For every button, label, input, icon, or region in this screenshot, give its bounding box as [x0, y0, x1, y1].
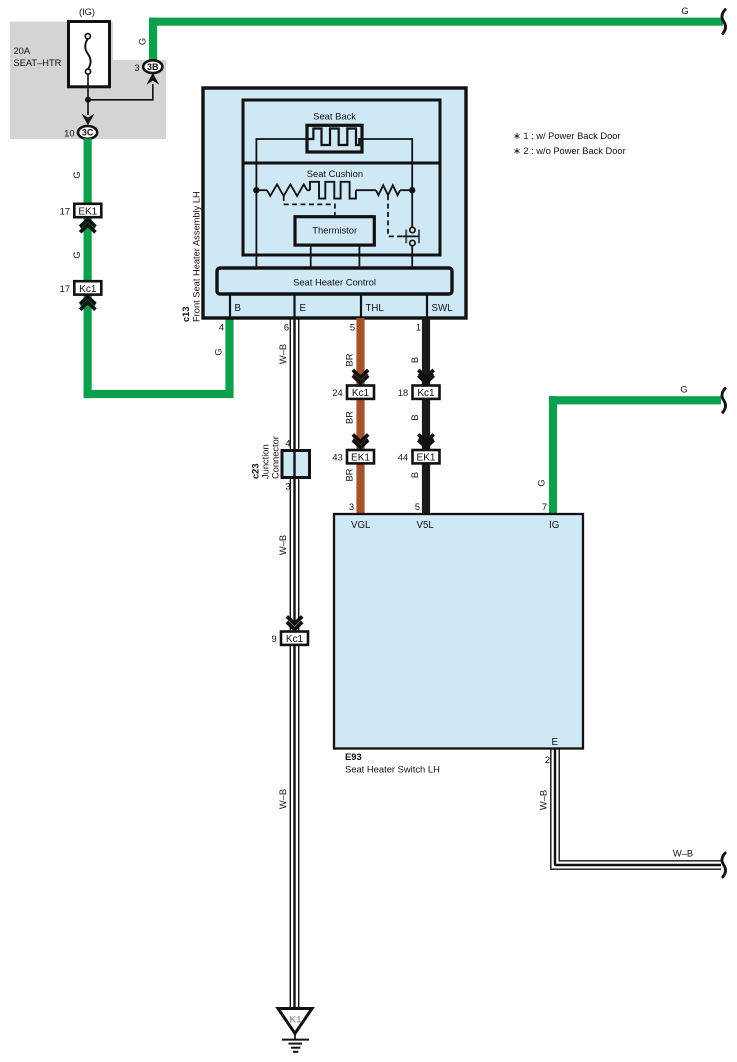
wire B SWL vertical — [422, 318, 430, 514]
pin stub E — [293, 294, 295, 318]
svg-text:G: G — [72, 171, 82, 178]
svg-text:c13: c13 — [181, 306, 191, 322]
svg-text:3C: 3C — [82, 128, 94, 138]
wire W-B from pin 6 vertical — [290, 318, 298, 1009]
svg-text:Kc1: Kc1 — [352, 388, 370, 399]
svg-text:3: 3 — [349, 502, 354, 512]
wire fuse to junction — [87, 74, 89, 100]
wire W-B from E93 pin 2 — [551, 749, 559, 870]
svg-text:Thermistor: Thermistor — [312, 225, 357, 236]
svg-text:BR: BR — [345, 468, 355, 481]
wire right node to switch — [411, 190, 413, 227]
svg-text:(IG): (IG) — [79, 7, 95, 17]
wire switch to control — [411, 246, 413, 268]
connector Kc1 pin 18 — [413, 386, 440, 400]
svg-text:THL: THL — [366, 303, 385, 314]
resistor cushion left zigzag — [267, 184, 307, 196]
heater element seat cushion square wave — [310, 182, 356, 199]
svg-text:1: 1 — [416, 322, 421, 332]
svg-text:Seat Heater Control: Seat Heater Control — [293, 276, 376, 287]
svg-text:B: B — [410, 414, 420, 420]
thermistor box — [295, 217, 374, 245]
svg-text:3: 3 — [285, 482, 290, 492]
connector 3B pin 3 — [143, 60, 162, 73]
wire thermistor left to control — [310, 245, 312, 268]
connector EK1 pin 44 — [413, 450, 440, 464]
svg-text:∗ 1 : w/ Power Back Door: ∗ 1 : w/ Power Back Door — [513, 131, 621, 141]
svg-text:E93: E93 — [345, 751, 362, 762]
svg-text:E: E — [552, 737, 559, 748]
svg-text:4: 4 — [285, 439, 290, 449]
fuse F1 20A SEAT-HTR — [69, 22, 110, 87]
pin stub SWL — [426, 294, 428, 318]
svg-text:W–B: W–B — [278, 789, 288, 809]
svg-text:5: 5 — [415, 502, 420, 512]
svg-text:SWL: SWL — [432, 303, 454, 314]
svg-text:BR: BR — [345, 353, 355, 366]
svg-text:43: 43 — [332, 453, 342, 463]
wire left node to control — [255, 190, 257, 268]
wire break squiggle right mid — [722, 388, 726, 412]
wire G left vertical from 3C — [84, 138, 92, 398]
svg-text:10: 10 — [64, 128, 74, 138]
wire break squiggle bottom right — [722, 853, 726, 877]
wire G main feed top horizontal — [149, 18, 723, 26]
wire junction down to arrow — [87, 100, 89, 115]
inner seat back / cushion box — [243, 100, 440, 255]
junction connector c23 box — [282, 451, 310, 478]
pin stub THL — [360, 294, 362, 318]
svg-text:G: G — [537, 479, 547, 486]
svg-text:18: 18 — [398, 388, 408, 398]
wire G vertical up to pin 4 — [225, 318, 233, 398]
chevron up below Kc1 — [80, 297, 95, 310]
svg-text:c23: c23 — [251, 463, 261, 479]
svg-text:24: 24 — [332, 388, 342, 398]
connector Kc1 pin 17 — [74, 281, 101, 295]
svg-text:6: 6 — [284, 322, 289, 332]
svg-text:E: E — [300, 303, 307, 314]
svg-text:3: 3 — [134, 63, 139, 73]
component E93 Seat Heater Switch LH box — [334, 514, 583, 749]
chevron down above Kc1 black — [418, 370, 433, 383]
svg-text:IG: IG — [549, 520, 559, 531]
divider line between seat back and cushion — [243, 162, 440, 165]
ground K1 — [278, 1009, 312, 1052]
svg-text:K1: K1 — [290, 1015, 302, 1025]
svg-text:Seat Cushion: Seat Cushion — [307, 168, 363, 179]
connector Kc1 pin 24 — [347, 386, 374, 400]
wire break squiggle top right — [722, 10, 726, 34]
connector EK1 pin 17 — [74, 204, 101, 218]
wire cushion chain — [256, 189, 412, 191]
dashed link thermistor — [284, 196, 335, 217]
dashed link switch — [388, 195, 403, 236]
svg-text:44: 44 — [398, 453, 408, 463]
chevron up below EK1 — [80, 219, 95, 232]
chevron down above EK1 black — [418, 434, 433, 447]
wire thermistor right to control — [358, 245, 360, 268]
svg-text:EK1: EK1 — [351, 453, 370, 464]
component c13 Front Seat Heater Assembly LH box — [203, 88, 466, 318]
node right cushion junction — [409, 187, 415, 193]
svg-text:Front Seat Heater Assembly LH: Front Seat Heater Assembly LH — [192, 191, 202, 322]
wire G elbow horizontal to pin 4 — [84, 390, 234, 398]
svg-text:W–B: W–B — [539, 790, 549, 810]
svg-text:Seat Heater Switch LH: Seat Heater Switch LH — [345, 764, 440, 775]
chevron down above Kc1 wb — [287, 616, 302, 629]
svg-text:20A: 20A — [14, 46, 31, 56]
svg-text:W–B: W–B — [278, 344, 288, 364]
pin stub B — [229, 294, 231, 318]
svg-text:EK1: EK1 — [417, 453, 436, 464]
gray power feed background — [10, 22, 166, 140]
svg-text:BR: BR — [345, 411, 355, 424]
svg-text:SEAT–HTR: SEAT–HTR — [14, 58, 62, 68]
heater element seat back square wave — [307, 129, 362, 146]
svg-text:W–B: W–B — [673, 849, 693, 859]
arrow down into 3C — [82, 114, 95, 126]
wire G vertical drop to 3B — [149, 18, 157, 61]
svg-text:3B: 3B — [147, 62, 159, 72]
wire seat back left to cushion node — [256, 139, 307, 190]
svg-text:EK1: EK1 — [78, 207, 97, 218]
svg-text:Connector: Connector — [271, 436, 281, 479]
svg-text:G: G — [214, 348, 224, 355]
connector 3C pin 10 — [78, 126, 97, 139]
switch contact in c13 — [403, 227, 420, 245]
svg-text:7: 7 — [542, 502, 547, 512]
svg-text:2: 2 — [545, 755, 550, 765]
svg-text:4: 4 — [219, 322, 224, 332]
wire W-B bottom horizontal — [551, 861, 721, 869]
svg-text:G: G — [681, 6, 688, 16]
svg-text:5: 5 — [350, 322, 355, 332]
svg-text:17: 17 — [60, 284, 70, 294]
svg-text:9: 9 — [272, 634, 277, 644]
chevron down above Kc1 brown — [353, 370, 368, 383]
wire BR THL vertical — [356, 318, 364, 514]
svg-text:B: B — [410, 357, 420, 363]
connector Kc1 pin 9 — [281, 632, 308, 646]
svg-text:Junction: Junction — [261, 444, 271, 479]
svg-text:V5L: V5L — [417, 520, 435, 531]
node junction dot — [85, 97, 91, 103]
connector EK1 pin 43 — [347, 450, 374, 464]
svg-text:VGL: VGL — [351, 520, 371, 531]
node left cushion junction — [253, 187, 259, 193]
chevron down above EK1 brown — [353, 434, 368, 447]
svg-text:∗ 2 : w/o Power Back Door: ∗ 2 : w/o Power Back Door — [513, 146, 626, 156]
wire junction to 3B arrow — [88, 84, 153, 100]
svg-text:Kc1: Kc1 — [286, 634, 304, 645]
svg-text:B: B — [235, 303, 241, 314]
arrow up into 3B — [146, 73, 159, 85]
seat heater control box — [217, 268, 452, 294]
svg-text:W–B: W–B — [278, 535, 288, 555]
svg-text:Kc1: Kc1 — [417, 388, 435, 399]
svg-text:G: G — [72, 251, 82, 258]
svg-text:Kc1: Kc1 — [79, 284, 97, 295]
wire G IG vertical — [549, 396, 557, 514]
wire seat back right to cushion node — [362, 139, 412, 190]
resistor cushion right zigzag — [376, 185, 400, 195]
svg-text:B: B — [410, 472, 420, 478]
heater element seat back box — [307, 125, 362, 152]
svg-text:G: G — [680, 385, 687, 395]
svg-text:Seat Back: Seat Back — [313, 111, 356, 122]
wire G IG horizontal — [549, 396, 721, 404]
svg-text:17: 17 — [60, 207, 70, 217]
svg-text:G: G — [138, 38, 148, 45]
